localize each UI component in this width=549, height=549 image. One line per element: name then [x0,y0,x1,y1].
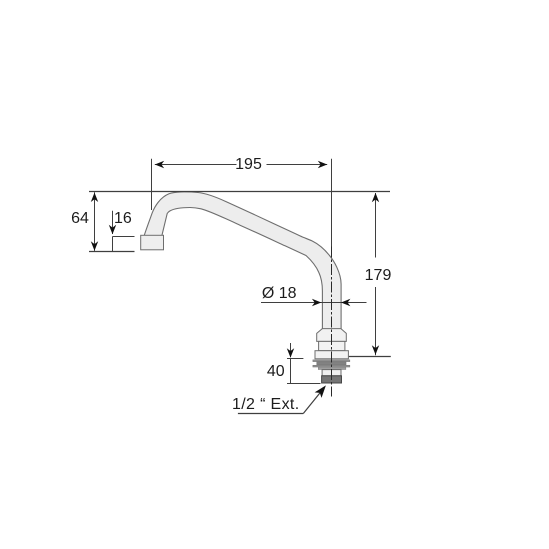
svg-text:195: 195 [235,156,262,173]
svg-text:16: 16 [114,210,132,227]
svg-text:64: 64 [71,210,89,227]
svg-text:179: 179 [365,267,392,284]
svg-text:1/2 “ Ext.: 1/2 “ Ext. [232,396,300,413]
svg-text:40: 40 [267,363,285,380]
svg-text:Ø 18: Ø 18 [262,285,297,302]
